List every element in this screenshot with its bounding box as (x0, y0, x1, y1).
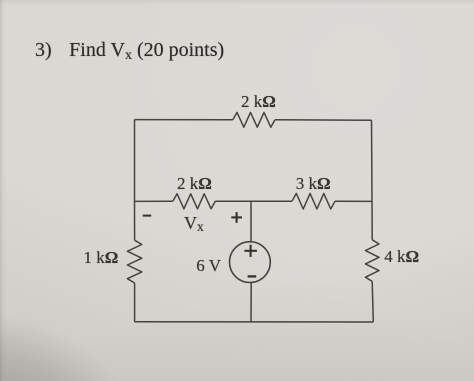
wire: left vertical upper (top-left corner to 1k resistor) (134, 120, 136, 241)
wire: left vertical lower (1k resistor to bottom-left corner) (134, 283, 136, 322)
plus sign of Vx (right) (231, 212, 242, 223)
resistor R-left 1k zigzag (127, 240, 141, 283)
label 3 kOhm (middle-right resistor) (296, 175, 331, 192)
minus sign inside source (248, 275, 257, 277)
title text "3) Find Vx (20 points)" (35, 40, 224, 60)
resistor R-mid 2k zigzag (173, 194, 216, 209)
wire: middle wire right segment (335, 200, 372, 202)
plus sign inside source (244, 245, 257, 257)
wire: right vertical lower (4k resistor to bottom-right corner) (372, 281, 373, 322)
wire: source top lead (250, 201, 252, 242)
resistor R-top 2k zigzag (233, 112, 275, 127)
minus sign of Vx (left) (143, 215, 152, 217)
resistor R-right 4k zigzag (365, 240, 379, 282)
wire: source bottom lead (250, 283, 252, 323)
label 2 kOhm (top resistor) (241, 93, 276, 110)
label 4 kOhm (right resistor) (384, 248, 419, 265)
voltage source V1 circle (230, 242, 271, 283)
label 2 kOhm (middle-left resistor) (177, 175, 212, 192)
wire: bottom wire (135, 321, 374, 323)
wire: right vertical upper (top-right corner to 4k resistor) (371, 120, 374, 240)
wire: middle wire left segment (135, 200, 173, 202)
wire: top wire left segment (135, 119, 233, 121)
label 6 V (source value) (196, 257, 221, 274)
label 1 kOhm (left resistor) (84, 249, 119, 266)
label Vx (node voltage) (184, 214, 204, 232)
wire: top wire right segment (275, 119, 372, 121)
wire: middle wire center segment (215, 200, 292, 202)
resistor R-mid 3k zigzag (292, 193, 335, 209)
